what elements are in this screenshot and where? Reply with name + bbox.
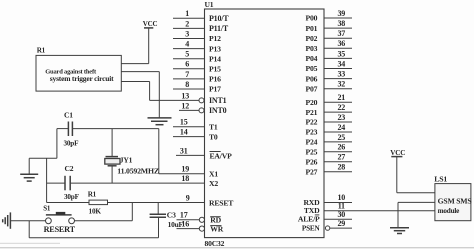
svg-text:7: 7 xyxy=(185,70,189,79)
svg-text:P12: P12 xyxy=(209,34,221,43)
svg-text:S1: S1 xyxy=(43,204,51,212)
svg-text:P15: P15 xyxy=(209,65,221,74)
svg-text:system trigger circuit: system trigger circuit xyxy=(50,74,114,83)
svg-text:module: module xyxy=(438,207,460,215)
svg-text:P14: P14 xyxy=(209,54,221,63)
svg-text:EA/VP: EA/VP xyxy=(210,151,233,160)
svg-text:P00: P00 xyxy=(306,14,318,23)
svg-text:1: 1 xyxy=(185,9,189,18)
svg-text:P24: P24 xyxy=(306,138,318,147)
svg-text:P10/T: P10/T xyxy=(209,14,229,23)
svg-text:13: 13 xyxy=(181,91,189,100)
svg-text:18: 18 xyxy=(181,174,189,183)
svg-text:P27: P27 xyxy=(306,167,318,176)
svg-text:9: 9 xyxy=(186,193,190,202)
svg-text:P05: P05 xyxy=(306,64,318,73)
svg-text:P22: P22 xyxy=(306,118,318,127)
svg-text:15: 15 xyxy=(180,118,188,127)
svg-text:RESERT: RESERT xyxy=(44,225,76,234)
svg-text:JY1: JY1 xyxy=(120,156,133,165)
svg-text:4: 4 xyxy=(185,40,189,49)
svg-text:LS1: LS1 xyxy=(434,175,447,184)
svg-text:P25: P25 xyxy=(306,148,318,157)
svg-text:P26: P26 xyxy=(306,158,318,167)
svg-text:35: 35 xyxy=(337,49,345,58)
svg-text:33: 33 xyxy=(337,70,345,79)
svg-text:C3: C3 xyxy=(167,211,176,220)
svg-text:RESET: RESET xyxy=(209,198,234,207)
svg-text:3: 3 xyxy=(185,29,189,38)
svg-text:30pF: 30pF xyxy=(64,193,80,201)
svg-text:38: 38 xyxy=(337,19,345,28)
svg-text:29: 29 xyxy=(337,219,345,228)
svg-text:GSM SMS: GSM SMS xyxy=(438,197,472,206)
svg-text:P21: P21 xyxy=(306,108,318,117)
svg-text:R1: R1 xyxy=(88,191,97,199)
svg-text:X1: X1 xyxy=(209,170,218,179)
svg-text:T0: T0 xyxy=(209,132,218,141)
svg-text:P03: P03 xyxy=(306,44,318,53)
svg-text:22: 22 xyxy=(337,103,345,112)
svg-text:34: 34 xyxy=(337,59,345,68)
svg-text:T1: T1 xyxy=(209,123,218,132)
svg-text:P13: P13 xyxy=(209,44,221,53)
svg-text:10uF: 10uF xyxy=(168,220,184,229)
svg-text:P20: P20 xyxy=(306,98,318,107)
svg-text:8: 8 xyxy=(185,80,189,89)
svg-text:39: 39 xyxy=(337,9,345,18)
svg-text:C1: C1 xyxy=(64,111,73,120)
svg-text:2: 2 xyxy=(185,19,189,28)
svg-text:INT0: INT0 xyxy=(209,106,227,115)
svg-text:37: 37 xyxy=(337,29,345,38)
svg-text:P17: P17 xyxy=(209,85,221,94)
svg-text:17: 17 xyxy=(180,211,188,220)
svg-text:11.0592MHZ: 11.0592MHZ xyxy=(117,167,159,176)
svg-text:31: 31 xyxy=(180,146,188,155)
svg-text:25: 25 xyxy=(337,133,345,142)
svg-text:P16: P16 xyxy=(209,75,221,84)
svg-text:6: 6 xyxy=(185,60,189,69)
svg-text:VCC: VCC xyxy=(143,20,158,28)
svg-text:P01: P01 xyxy=(306,24,318,33)
svg-text:24: 24 xyxy=(337,123,345,132)
svg-text:P07: P07 xyxy=(306,84,318,93)
svg-text:19: 19 xyxy=(181,165,189,174)
svg-text:X2: X2 xyxy=(209,179,218,188)
svg-text:P02: P02 xyxy=(306,34,318,43)
svg-text:23: 23 xyxy=(337,113,345,122)
svg-text:32: 32 xyxy=(337,80,345,89)
svg-text:21: 21 xyxy=(337,93,345,102)
svg-text:26: 26 xyxy=(337,143,345,152)
svg-text:28: 28 xyxy=(337,163,345,172)
svg-text:5: 5 xyxy=(185,50,189,59)
svg-text:U1: U1 xyxy=(205,0,214,9)
svg-text:80C32: 80C32 xyxy=(205,239,225,248)
svg-text:P04: P04 xyxy=(306,54,318,63)
svg-text:30pF: 30pF xyxy=(64,139,80,147)
svg-text:36: 36 xyxy=(337,39,345,48)
svg-text:P23: P23 xyxy=(306,128,318,137)
svg-text:PSEN: PSEN xyxy=(302,225,321,233)
svg-text:INT1: INT1 xyxy=(209,96,227,105)
svg-text:P06: P06 xyxy=(306,74,318,83)
svg-text:30: 30 xyxy=(337,210,345,219)
svg-text:10K: 10K xyxy=(89,207,102,216)
svg-text:C2: C2 xyxy=(65,164,74,173)
svg-text:12: 12 xyxy=(181,101,189,110)
svg-text:R1: R1 xyxy=(37,46,46,54)
svg-text:ALE/P: ALE/P xyxy=(298,215,320,224)
svg-text:P11/T: P11/T xyxy=(209,24,229,33)
svg-text:14: 14 xyxy=(180,128,188,137)
svg-text:27: 27 xyxy=(337,153,345,162)
